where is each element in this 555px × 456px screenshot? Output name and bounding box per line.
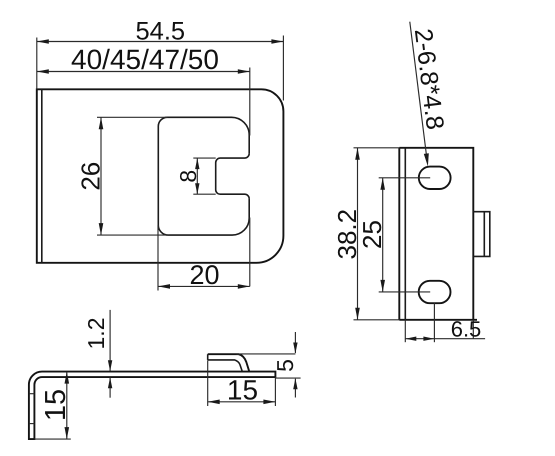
dimension 26 extension lines [97,117,169,235]
dimension text 20 [189,260,219,290]
svg-text:15: 15 [227,375,258,406]
dimension 6.5 extension lines [405,303,473,342]
dimension 6.5 line with arrows and shelf [405,337,485,341]
front view: inner cutout with right-side notch [158,117,249,235]
svg-text:40/45/47/50: 40/45/47/50 [71,44,219,75]
leader line 2-6.8*4.8 with arrow [410,22,429,167]
dimension 25 line with arrows [380,178,385,292]
dimension 15 (leg) line with arrows [65,372,70,440]
dimension 15 (flap) extension lines [208,360,276,406]
dimension 5 extension lines [237,354,301,378]
svg-text:2-6.8*4.8: 2-6.8*4.8 [409,27,449,131]
front view: left fold line [41,89,43,262]
dimension 40/45/47/50 extension line right (continues through part) [249,68,251,287]
dimension 8 line with arrows [195,158,199,194]
dimension 54.5 extension line left [36,38,38,90]
profile view: raised flap [208,354,250,371]
dimension text 25 (rotated) [357,220,387,249]
dimension 20 extension lines [157,225,159,291]
svg-text:20: 20 [189,260,219,290]
dimension 15 (flap) line with arrows [208,400,276,405]
svg-text:25: 25 [357,220,387,249]
side view: plate outline [399,148,477,320]
dimension 40/45/47/50 line with arrows [37,69,250,74]
dimension 25 extension lines [379,178,431,292]
dimension 26 line with arrows [99,117,104,235]
dimension text 6.5 [451,317,482,342]
svg-text:1.2: 1.2 [83,318,109,350]
svg-text:54.5: 54.5 [135,17,185,45]
svg-text:15: 15 [40,389,72,421]
side view: inner thickness line [404,148,406,320]
dimension text 5 (rotated) [272,359,298,372]
dimension 20 line with arrows [158,284,250,289]
dimension 5 lines with arrows [293,332,297,398]
dimension text 15 flap [227,375,258,406]
leader text 2-6.8*4.8 (rotated) [409,27,449,131]
svg-text:5: 5 [272,359,298,372]
dimension text 26 (rotated) [75,162,105,191]
dimension 54.5 extension line right [282,36,284,101]
profile view: leg tick marks [29,394,35,424]
svg-text:6.5: 6.5 [451,317,482,342]
svg-text:8: 8 [175,170,201,183]
dimension 54.5 line with arrows [37,39,284,44]
side view: bottom slot 6.8x4.8 [419,281,451,303]
dimension 8 extension lines [193,158,215,194]
dimension text 40/45/47/50 [71,44,219,75]
dimension text 15 leg (rotated) [40,389,72,421]
svg-text:26: 26 [75,162,105,191]
side view: right tab [473,212,490,257]
side view: top slot 6.8x4.8 [419,167,451,189]
dimension text 1.2 (rotated) [83,318,109,350]
dimension 15 (leg) extension line [34,438,70,440]
dimension 1.2 lines with arrows [108,310,112,398]
dimension text 8 (rotated) [175,170,201,183]
dimension 38.2 extension lines [354,148,400,320]
front view: outer bracket outline [37,89,284,262]
profile view: strip with left leg [29,372,276,440]
dimension 38.2 line with arrows [355,148,360,320]
dimension text 54.5 [135,17,185,45]
dimension text 38.2 (rotated) [332,209,362,260]
